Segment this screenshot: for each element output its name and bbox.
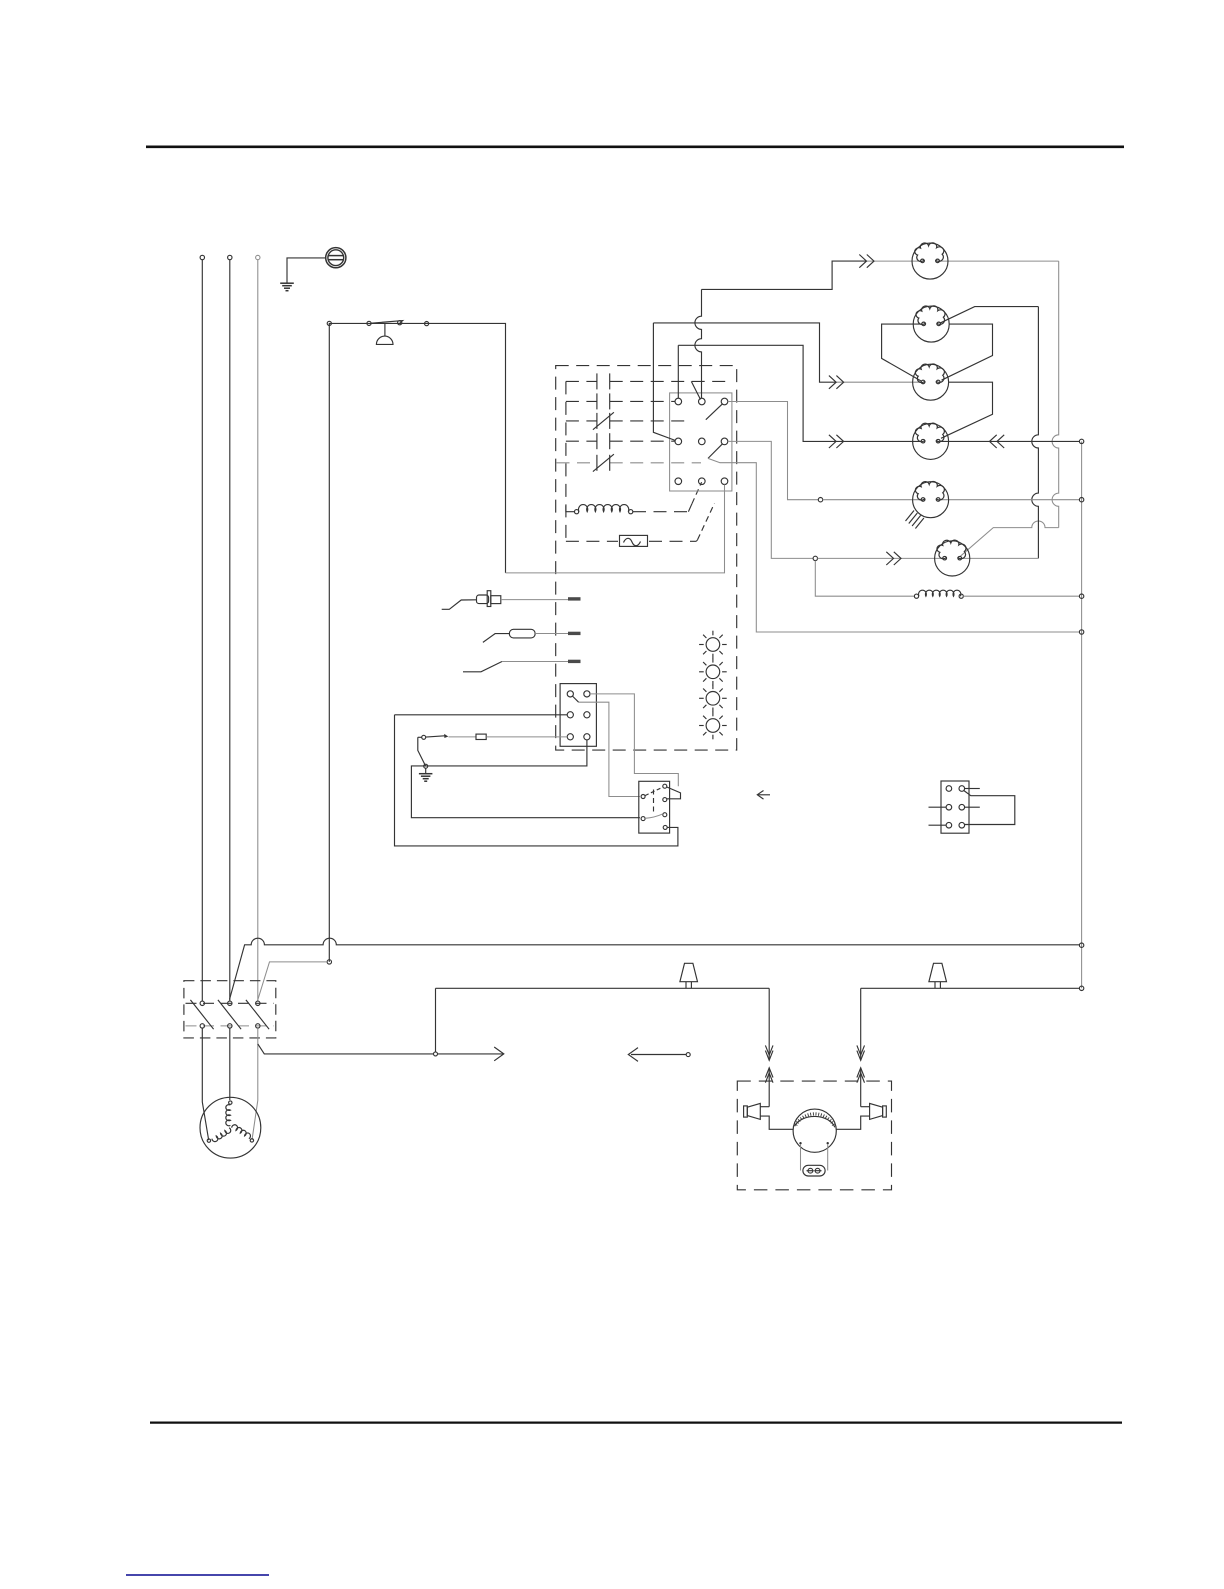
X2 pin (961,788) <box>959 786 965 792</box>
wire feed M1 <box>702 255 921 290</box>
S3 pin (643,796) <box>641 795 645 799</box>
contact row K4 <box>566 433 675 449</box>
wire left loop <box>395 715 678 846</box>
relay pin (701,441) <box>699 438 706 445</box>
door switch S1 blade <box>371 321 403 324</box>
lamp H3 <box>699 658 727 686</box>
node S2 ground <box>424 764 428 768</box>
connector lug left <box>680 963 698 988</box>
wire frame to pole3 <box>258 962 327 1000</box>
node bus 441 <box>1079 439 1083 443</box>
enclosure frame wire <box>329 323 505 962</box>
wire M2 diag out <box>941 307 1039 323</box>
wire P3 to pin <box>502 660 581 663</box>
X1 pin (586,693) <box>584 691 590 697</box>
node j1 <box>818 498 822 502</box>
motor M5 <box>913 482 949 518</box>
breaker row bottom <box>186 1025 274 1027</box>
plug drop right upper <box>857 988 865 1060</box>
S3 blade 2 <box>645 814 663 819</box>
S3 hook <box>667 787 681 799</box>
control unit dashed frame <box>556 366 737 750</box>
node bus 988 <box>1079 986 1083 990</box>
wire L3 drop <box>257 260 259 1001</box>
relay coil L1 <box>566 505 633 514</box>
S3 pin (664,814) <box>663 813 667 817</box>
arrow left <box>628 1048 690 1062</box>
wire L1 drop <box>201 260 203 1001</box>
fan capacitor C1 <box>801 1144 828 1176</box>
relay blade top feed <box>691 381 700 399</box>
page bottom rule <box>150 1421 1122 1423</box>
igniter probe P1 <box>442 591 501 610</box>
footer blue link underline <box>126 1574 269 1576</box>
motor M2 <box>913 306 949 342</box>
wire coil to blade <box>633 482 702 512</box>
relay pin (678,441) <box>675 438 682 445</box>
node bus 945 <box>1079 943 1083 947</box>
sensor probe P3 <box>463 662 502 672</box>
S3 pin (664,786) <box>663 784 667 788</box>
contact row K5 NC grey <box>557 454 702 471</box>
X1 blade <box>573 696 579 702</box>
relay pin (678,401) <box>675 398 682 405</box>
selector block X1 <box>560 684 596 747</box>
breaker dashed box <box>184 981 276 1038</box>
wire relay pin3 to M5 <box>728 402 819 500</box>
relay pin (724,441) <box>721 438 728 445</box>
node bus 596 <box>1079 594 1083 598</box>
line coil L2 <box>914 590 963 598</box>
S3 blade 1 <box>645 787 663 796</box>
bus bottom with hops <box>230 938 1080 999</box>
connector lug right <box>929 963 947 988</box>
wire bottom right segment <box>861 987 1080 989</box>
earth terminal E <box>326 248 346 268</box>
wire feed M3 <box>653 323 921 389</box>
contact row K3 NC <box>566 412 691 429</box>
X1 pin (570,736) <box>567 734 573 740</box>
relay pin (701,481) <box>699 478 706 485</box>
wire coil to bus <box>963 595 1079 597</box>
arrow right <box>438 1047 504 1061</box>
X1 pin (586,714) <box>584 712 590 718</box>
micro switch S2 <box>418 734 449 766</box>
node j2 <box>813 556 817 560</box>
X1 pin (570,714) <box>567 712 573 718</box>
relay pin (724,481) <box>721 478 728 485</box>
contact row K2 <box>566 393 675 409</box>
X2 pin (948,807) <box>946 804 952 810</box>
fan lug left <box>744 1103 794 1129</box>
wire X1 blade to lower switch <box>579 702 640 796</box>
plug drop right lower <box>857 1068 865 1107</box>
X2 stub p3 left <box>929 806 947 808</box>
wire X1 p5 fuse lead <box>449 734 568 739</box>
wire X1 p3 from left loop <box>395 714 568 716</box>
lamp H2 <box>699 631 727 659</box>
wire pole3 branch to arrow <box>258 1044 434 1054</box>
wire M5 to bus <box>940 499 1079 501</box>
wire X1 p2 to lower switch hook <box>590 694 678 786</box>
wire drop x678 to relay <box>677 345 679 398</box>
X2 stub p4 right <box>965 806 980 808</box>
wire L2 drop <box>229 260 231 1001</box>
wire X1 p6 to ground node <box>411 740 640 818</box>
wire j1 to M5 <box>823 499 922 501</box>
heater hatch marks <box>906 511 924 529</box>
motor M3 <box>913 364 949 400</box>
breaker pole x=229 <box>218 1000 241 1029</box>
wire M1 to right drop <box>939 260 1058 262</box>
X2 pin (948,788) <box>946 786 952 792</box>
X2 pin (961,825) <box>959 822 965 828</box>
S3 pin (643,818) <box>641 817 645 821</box>
ground PE wire <box>287 258 326 283</box>
wire bottom left segment <box>436 987 770 989</box>
inner dashed edge <box>565 381 567 541</box>
motor M6 <box>935 541 970 576</box>
ground PE symbol <box>280 283 294 291</box>
wire feed M2 left <box>882 324 922 381</box>
relay pin (678,481) <box>675 478 682 485</box>
wire drop x701 with hops <box>695 289 702 398</box>
wire j2 to M6 <box>818 552 944 565</box>
breaker pole x=202 <box>190 1000 213 1029</box>
node frame corner <box>327 321 331 325</box>
node bus 499 <box>1079 498 1083 502</box>
wire pole1 to motor <box>202 1028 208 1140</box>
relay block outline <box>670 393 732 491</box>
wire relay pin6 to j2 <box>728 441 813 558</box>
contact row K1 <box>566 373 730 389</box>
fan unit dashed box <box>737 1081 891 1190</box>
lamp H4 <box>699 685 727 713</box>
breaker row top <box>186 1002 274 1004</box>
node frame bottom <box>327 960 331 964</box>
wire j2 to line coil <box>815 561 914 597</box>
S3 pin (665,827) <box>663 825 667 829</box>
fan lug right <box>836 1103 886 1129</box>
3-phase motor M7 <box>200 1097 261 1158</box>
plug drop left lower <box>765 1068 773 1107</box>
wire M2 drop with hops <box>1032 307 1039 559</box>
relay pin (724,401) <box>721 398 728 405</box>
node supply L3 <box>256 255 260 259</box>
wire pole2 to motor <box>229 1028 231 1100</box>
wire P1 to pin <box>501 597 581 600</box>
X2 pin (961,807) <box>959 804 965 810</box>
wire M3 loop to M4 <box>941 382 993 438</box>
wire pole3 to motor <box>252 1028 258 1140</box>
relay blade b <box>708 444 723 459</box>
wire feed M4 <box>678 345 921 448</box>
wire M6 right up <box>961 557 1038 559</box>
X1 pin (586,736) <box>584 734 590 740</box>
arrow small left mid <box>757 791 770 800</box>
buzzer H1 <box>376 323 393 344</box>
wire blade-b tap to bus <box>708 458 1079 632</box>
wire right drop with hops <box>1052 261 1059 527</box>
wire relay pin9 to box <box>506 485 725 573</box>
thermal cutout F1 <box>566 503 715 546</box>
sensor probe P2 <box>483 629 535 642</box>
node supply L2 <box>228 255 232 259</box>
door switch S1 contacts <box>367 321 371 325</box>
lamp H5 <box>699 712 727 740</box>
interlock switch S3 <box>639 781 670 833</box>
node arrow junction <box>434 1052 438 1056</box>
node bus 632 <box>1079 630 1083 634</box>
motor M4 <box>913 423 949 459</box>
wire M2 loop to M3 <box>942 324 993 380</box>
ground S2 <box>419 768 433 781</box>
relay blade a <box>706 404 723 420</box>
terminal block X2 <box>941 781 969 833</box>
wire drop x653 to relay <box>653 323 675 441</box>
wire drop to M6 diag <box>960 521 1058 556</box>
plug drop left upper <box>765 988 773 1060</box>
X1 pin (570,693) <box>567 691 573 697</box>
node supply L1 <box>200 255 204 259</box>
S3 pin (664,799) <box>663 798 667 802</box>
wire P2 to pin <box>535 632 580 635</box>
breaker pole x=257 <box>246 1000 269 1029</box>
page top rule <box>146 146 1124 149</box>
X2 blade loop <box>964 791 1015 825</box>
relay pin (701,401) <box>699 398 706 405</box>
fan motor M8 <box>793 1109 836 1152</box>
X2 stub p2 <box>965 788 980 790</box>
X2 stub p5 left <box>929 824 947 826</box>
X2 pin (948,825) <box>946 822 952 828</box>
bus right vertical <box>1081 441 1083 988</box>
motor M1 <box>912 243 948 279</box>
wire tap down left <box>435 988 437 1052</box>
wire M4 to bus <box>940 435 1079 448</box>
S3 link <box>653 790 655 814</box>
